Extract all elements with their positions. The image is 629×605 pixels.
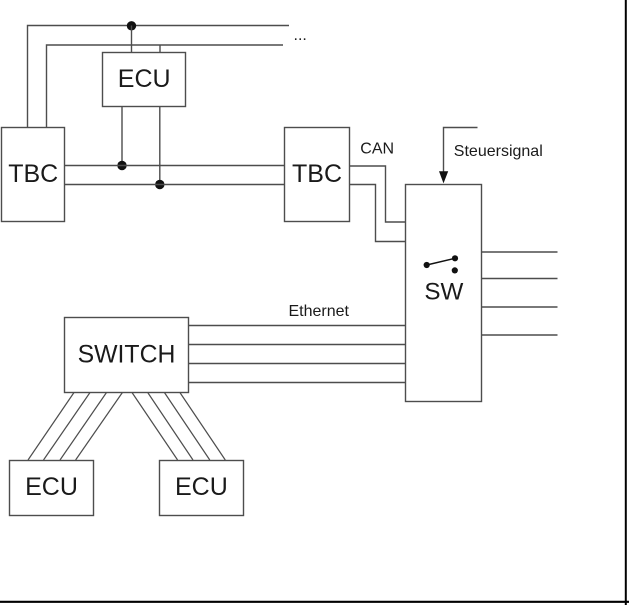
svg-text:SWITCH: SWITCH xyxy=(78,342,176,369)
svg-text:CAN: CAN xyxy=(360,141,394,158)
wire: SWITCH to left ECU link 2 xyxy=(44,393,91,461)
svg-text:Ethernet: Ethernet xyxy=(289,303,350,320)
wire: bus line 1 TBC1 to TBC2 xyxy=(65,165,285,167)
wire: top bus line 2 stub to ECU top xyxy=(159,45,161,53)
wire: SW output 1 xyxy=(482,251,558,253)
wire: SWITCH to right ECU link 2 xyxy=(148,393,193,461)
wire: SWITCH to right ECU link 3 xyxy=(164,393,209,461)
wire: SWITCH to left ECU link 3 xyxy=(60,393,107,461)
wire: SWITCH to left ECU link 1 xyxy=(28,393,74,461)
block ECU (bottom left) xyxy=(10,461,94,516)
block SWITCH xyxy=(65,318,189,393)
node: junction on top bus line 1 xyxy=(127,21,136,30)
wire: SW output 3 xyxy=(482,306,558,308)
wire: SWITCH to right ECU link 4 xyxy=(180,393,225,461)
svg-text:TBC: TBC xyxy=(292,160,342,188)
svg-text:...: ... xyxy=(294,27,307,44)
wire: CAN step line 1 TBC2 to SW xyxy=(350,166,406,222)
wire: SW output 4 xyxy=(482,334,558,336)
wire: CAN step line 2 TBC2 to SW xyxy=(350,185,406,242)
svg-text:ECU: ECU xyxy=(175,473,228,501)
label CAN xyxy=(360,141,394,158)
svg-text:TBC: TBC xyxy=(8,160,58,188)
wire: SWITCH to right ECU link 1 xyxy=(132,393,178,461)
wire: Ethernet line 4 SWITCH to SW xyxy=(189,382,406,384)
wire: Ethernet line 2 SWITCH to SW xyxy=(189,344,406,346)
node: junction ECU drop on bus 2 xyxy=(155,180,164,189)
block SW (switch unit) xyxy=(406,185,482,402)
wire: ECU to bus line 2 xyxy=(159,107,161,185)
node: junction ECU drop on bus 1 xyxy=(117,161,126,170)
block TBC (left) xyxy=(2,128,65,222)
wire: ECU to bus line 1 xyxy=(121,107,123,166)
block TBC (middle) xyxy=(285,128,350,222)
label Ethernet xyxy=(289,303,350,320)
wire: Steuersignal feed with arrow into SW xyxy=(439,128,478,184)
ellipsis continuation dots xyxy=(294,27,307,44)
label Steuersignal xyxy=(454,143,543,160)
wire: Ethernet line 1 SWITCH to SW xyxy=(189,325,406,327)
svg-text:Steuersignal: Steuersignal xyxy=(454,143,543,160)
svg-text:ECU: ECU xyxy=(118,65,171,93)
svg-text:ECU: ECU xyxy=(25,473,78,501)
switch symbol inside SW xyxy=(424,255,459,273)
wire: bus line 2 TBC1 to TBC2 xyxy=(65,184,285,186)
wire: Ethernet line 3 SWITCH to SW xyxy=(189,363,406,365)
block ECU (top) xyxy=(103,53,186,107)
svg-text:SW: SW xyxy=(424,279,463,306)
wire: SW output 2 xyxy=(482,278,558,280)
wire: node to ECU top xyxy=(131,26,133,54)
block ECU (bottom right) xyxy=(160,461,244,516)
wire: top bus line 1 with left drop to TBC1 xyxy=(28,26,290,129)
wire: top bus line 2 with left drop to TBC1 xyxy=(47,45,284,128)
wire: SWITCH to left ECU link 4 xyxy=(76,393,123,461)
